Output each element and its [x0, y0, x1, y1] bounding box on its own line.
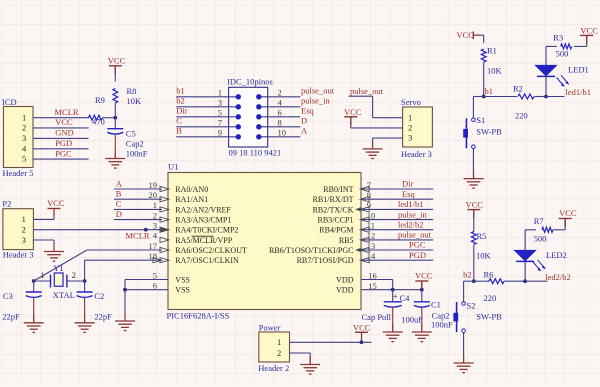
- svg-text:A: A: [301, 126, 308, 136]
- svg-text:11: 11: [367, 221, 375, 231]
- wire net A to RA0: [114, 188, 162, 190]
- U1 left pin names: [175, 185, 247, 295]
- junction VDD C1: [420, 288, 424, 292]
- connector ICD pin numbers: [22, 112, 27, 163]
- junction on RA4 wire: [144, 228, 148, 232]
- svg-text:5: 5: [153, 270, 157, 280]
- svg-text:1: 1: [22, 112, 26, 122]
- svg-text:100uF: 100uF: [401, 314, 423, 324]
- wire R3 to VCC: [574, 45, 587, 47]
- svg-text:Header 5: Header 5: [3, 168, 34, 178]
- wire RB4 to net led2/b2: [361, 229, 433, 231]
- capacitor C1: [414, 301, 430, 303]
- svg-text:pulse_out: pulse_out: [398, 230, 432, 240]
- svg-text:SW-PB: SW-PB: [476, 126, 502, 136]
- svg-text:GND: GND: [55, 128, 73, 138]
- svg-text:led1/b1: led1/b1: [398, 199, 424, 209]
- junction Power VCC: [360, 340, 364, 344]
- ground below C2: [84, 315, 86, 323]
- wire VCC to R8: [114, 66, 116, 82]
- svg-text:220: 220: [515, 110, 528, 120]
- IDC contact dots: [236, 94, 241, 99]
- wire net C to RA2: [114, 208, 162, 210]
- svg-text:C: C: [176, 116, 182, 126]
- wire net D to RA3: [114, 219, 162, 221]
- svg-text:VCC: VCC: [580, 26, 598, 36]
- svg-text:100nF: 100nF: [431, 320, 453, 330]
- svg-text:PIC16F628A-I/SS: PIC16F628A-I/SS: [167, 311, 230, 321]
- svg-text:1: 1: [277, 337, 281, 347]
- wire RA6 horizontal: [87, 249, 162, 251]
- svg-text:VDD: VDD: [336, 286, 354, 295]
- svg-text:2: 2: [72, 270, 76, 280]
- svg-text:2: 2: [153, 210, 157, 220]
- wire junction to C5: [114, 118, 116, 129]
- U1 right pin numbers: [367, 180, 377, 291]
- wire P2 pin3 to ground: [33, 239, 54, 241]
- svg-text:RB1/RX/DT: RB1/RX/DT: [313, 195, 354, 204]
- wire RB5 to net pulse_out: [361, 239, 433, 241]
- svg-text:R9: R9: [95, 95, 105, 105]
- svg-text:2: 2: [277, 348, 281, 358]
- svg-text:C1: C1: [431, 300, 441, 310]
- wire S2 to ground: [463, 333, 465, 364]
- svg-text:C3: C3: [3, 291, 13, 301]
- svg-text:2: 2: [22, 123, 26, 133]
- ground below C1: [421, 324, 423, 332]
- wire C4 to ground: [392, 307, 394, 332]
- wire R1 to node b1: [483, 62, 485, 96]
- svg-text:XTAL: XTAL: [53, 290, 75, 300]
- svg-text:9: 9: [367, 200, 371, 210]
- svg-text:R5: R5: [477, 231, 487, 241]
- wire C1 top: [421, 290, 423, 302]
- IDC left pin numbers 1 3 5 7 9: [218, 88, 222, 138]
- wire R5 to node b2: [473, 245, 475, 282]
- capacitor C3: [26, 291, 42, 293]
- node b2 junction: [472, 279, 476, 283]
- junction MCLR/R8/C5: [113, 116, 117, 120]
- wire b2 to S2: [464, 280, 474, 282]
- svg-text:1: 1: [153, 200, 157, 210]
- svg-text:9: 9: [218, 128, 222, 138]
- svg-text:RA7/OSC1/CLKIN: RA7/OSC1/CLKIN: [175, 256, 239, 265]
- svg-text:+: +: [393, 292, 398, 301]
- wire RB3 to net pulse_in: [361, 219, 433, 221]
- wire vertical crystal pin2 to RA7: [84, 260, 86, 281]
- svg-text:13: 13: [367, 241, 376, 251]
- svg-text:b2: b2: [463, 269, 472, 279]
- svg-text:A: A: [116, 178, 123, 188]
- svg-text:10K: 10K: [476, 251, 492, 261]
- wire Power pin1 to VCC: [290, 341, 372, 343]
- svg-text:P2: P2: [2, 198, 11, 208]
- resistor R6: [489, 279, 504, 284]
- svg-text:RA3/AN3/CMP1: RA3/AN3/CMP1: [175, 216, 231, 225]
- U1 RB2 filled arrow: [355, 207, 362, 212]
- svg-text:7: 7: [218, 118, 222, 128]
- svg-text:Dir: Dir: [402, 179, 414, 189]
- svg-text:VCC: VCC: [47, 198, 65, 208]
- svg-text:12: 12: [367, 231, 376, 241]
- wire crystal pin1 to C3: [33, 281, 35, 292]
- wire VCC to R5: [473, 210, 475, 232]
- svg-text:C: C: [116, 199, 122, 209]
- IDC right pin numbers 2 4 6 8 10: [278, 88, 287, 138]
- junction LED2 cathode node: [523, 279, 527, 283]
- wire LED1 to R3: [546, 45, 557, 47]
- svg-text:Servo: Servo: [401, 97, 421, 107]
- ground below C4: [392, 324, 394, 332]
- ground below Servo: [372, 141, 374, 149]
- svg-text:MCLR: MCLR: [55, 107, 79, 117]
- wire C3 to ground: [33, 298, 35, 323]
- svg-text:1: 1: [218, 88, 222, 98]
- svg-text:RA1/AN1: RA1/AN1: [175, 195, 208, 204]
- junction crystal pin1: [32, 279, 36, 283]
- diode LED2: [514, 250, 536, 260]
- wire R7 to VCC: [553, 229, 565, 231]
- wire P2 pin2 to RA4: [33, 229, 161, 231]
- resistor R9: [89, 115, 103, 120]
- svg-text:500: 500: [556, 48, 569, 58]
- wire VSS pin6: [125, 289, 168, 291]
- svg-text:R8: R8: [127, 86, 137, 96]
- capacitor C2: [77, 291, 93, 293]
- svg-text:20: 20: [149, 190, 158, 200]
- wire b1 to S1: [473, 96, 483, 98]
- wire ICD pin3 GND: [33, 137, 89, 139]
- wire C5 to ground: [114, 135, 116, 159]
- svg-text:D: D: [116, 209, 122, 219]
- svg-text:5: 5: [218, 108, 222, 118]
- LED2 wire vertical: [524, 230, 526, 281]
- svg-text:PGD: PGD: [409, 250, 426, 260]
- wire ICD pin1 MCLR: [33, 117, 89, 119]
- svg-text:1: 1: [22, 214, 26, 224]
- svg-text:8: 8: [278, 118, 282, 128]
- wire RB0 to net Dir: [361, 188, 433, 190]
- svg-text:3: 3: [22, 235, 26, 245]
- wire VDD junction to C4: [392, 290, 394, 302]
- switch S1 SW-PB: [472, 118, 476, 122]
- svg-text:3: 3: [22, 133, 26, 143]
- Power pin numbers: [277, 337, 281, 358]
- wire LED2 node to led2/b2 label: [525, 280, 547, 282]
- svg-text:ICD: ICD: [2, 97, 17, 107]
- wire crystal pin2 to C2: [84, 281, 86, 292]
- capacitor C5: [107, 128, 123, 130]
- svg-text:18: 18: [149, 251, 158, 261]
- ground below C5: [114, 150, 116, 158]
- svg-text:S2: S2: [467, 300, 476, 310]
- wire net B to RA1: [114, 198, 162, 200]
- U1 RA4 filled arrow: [161, 227, 169, 232]
- wire R9 to junction: [103, 117, 116, 119]
- svg-text:3: 3: [218, 98, 222, 108]
- wire b1 to R2: [484, 96, 517, 98]
- svg-text:b1: b1: [176, 86, 185, 96]
- svg-text:22pF: 22pF: [94, 311, 112, 321]
- svg-text:U1: U1: [168, 162, 178, 172]
- U1 left pin numbers: [149, 180, 158, 291]
- svg-text:2: 2: [22, 225, 26, 235]
- U1 RA7 extra triangle: [153, 258, 162, 263]
- svg-text:R6: R6: [484, 270, 494, 280]
- ground below S2: [463, 355, 465, 363]
- wire VSS to ground: [124, 280, 126, 322]
- svg-text:RB7/T1OSI/PGD: RB7/T1OSI/PGD: [297, 256, 354, 265]
- svg-text:VDD: VDD: [336, 275, 354, 284]
- power stub overpaint fixes: [114, 66, 116, 74]
- svg-text:10: 10: [278, 128, 287, 138]
- wire b2 to R6: [474, 280, 489, 282]
- svg-text:S1: S1: [476, 115, 485, 125]
- svg-text:LED2: LED2: [546, 250, 567, 260]
- svg-text:VCC: VCC: [353, 323, 371, 333]
- svg-text:Header 2: Header 2: [258, 363, 289, 373]
- wire ICD pin5 PGC: [33, 158, 89, 160]
- svg-text:14: 14: [367, 251, 376, 261]
- diode LED1: [535, 65, 557, 76]
- wire S1 to ground: [472, 149, 474, 179]
- resistor R2: [518, 94, 534, 99]
- svg-text:Dir: Dir: [176, 106, 188, 116]
- svg-text:B: B: [116, 189, 122, 199]
- svg-text:Header 3: Header 3: [401, 149, 432, 159]
- wire VDD pin15: [361, 289, 422, 291]
- ground below C3: [33, 315, 35, 323]
- svg-text:LED1: LED1: [568, 64, 589, 74]
- svg-text:R3: R3: [553, 33, 563, 43]
- U1 RB6 filled arrow: [355, 248, 362, 253]
- svg-text:VSS: VSS: [175, 286, 190, 295]
- svg-text:Header 3: Header 3: [3, 250, 34, 260]
- wire VCC to VDD: [421, 281, 423, 290]
- ground below Power header: [309, 356, 311, 364]
- U1 RA5 MCLR overline: [192, 235, 214, 237]
- svg-text:VCC: VCC: [457, 30, 475, 40]
- svg-text:pulse_in: pulse_in: [301, 96, 331, 106]
- svg-text:3: 3: [408, 133, 412, 143]
- svg-text:6: 6: [278, 108, 282, 118]
- svg-text:RA0/AN0: RA0/AN0: [175, 185, 208, 194]
- capacitor C4 polarized: [384, 301, 402, 303]
- wire R8 to junction: [114, 103, 116, 118]
- svg-text:RB0/INT: RB0/INT: [323, 185, 353, 194]
- junction crystal pin2: [83, 279, 87, 283]
- wire VSS pin5: [125, 279, 168, 281]
- svg-text:3: 3: [153, 221, 157, 231]
- svg-text:RA6/OSC2/CLKOUT: RA6/OSC2/CLKOUT: [175, 246, 247, 255]
- wire pulse_out to Servo pin1: [349, 95, 373, 97]
- svg-text:10: 10: [367, 210, 376, 220]
- wire C2 to ground: [84, 298, 86, 323]
- wire LED1 node to led1/b1 label: [546, 96, 564, 98]
- wire diagonal crystal pin1 to RA6: [34, 250, 87, 281]
- wire RB7 to net PGD: [361, 259, 433, 261]
- U1 right pin triangles: [360, 186, 369, 191]
- wire RA7 horizontal: [85, 259, 162, 261]
- wire C1 to ground: [421, 307, 423, 332]
- svg-text:Cap Poll: Cap Poll: [362, 312, 392, 322]
- svg-text:7: 7: [367, 180, 371, 190]
- svg-text:2: 2: [408, 123, 412, 133]
- junction VDD C4: [391, 288, 395, 292]
- resistor R7: [542, 227, 553, 232]
- svg-text:10K: 10K: [127, 96, 143, 106]
- svg-text:Esq: Esq: [402, 189, 416, 199]
- resistor R8: [113, 89, 118, 104]
- wire RB2 to net led1/b1: [361, 208, 433, 210]
- svg-text:PGC: PGC: [409, 240, 426, 250]
- wire VCC to P2 pin1: [53, 209, 55, 220]
- svg-text:pulse_out: pulse_out: [350, 86, 384, 96]
- resistor R1: [481, 49, 486, 62]
- svg-text:led1/b1: led1/b1: [566, 87, 592, 97]
- svg-text:IDC_10pinos: IDC_10pinos: [227, 77, 273, 87]
- Servo pin numbers: [408, 112, 412, 142]
- resistor R5: [471, 232, 476, 245]
- wire R6 to LED2 node: [504, 280, 525, 282]
- U1 left pin triangles: [160, 186, 169, 191]
- svg-text:SW-PB: SW-PB: [476, 311, 502, 321]
- svg-text:2: 2: [278, 88, 282, 98]
- svg-text:b1: b1: [485, 86, 494, 96]
- svg-text:Cap2: Cap2: [126, 138, 144, 148]
- svg-text:b2: b2: [176, 96, 185, 106]
- ground below VSS: [124, 313, 126, 321]
- svg-text:220: 220: [484, 293, 497, 303]
- svg-text:1: 1: [41, 270, 45, 280]
- svg-text:VCC: VCC: [108, 55, 126, 65]
- svg-text:MCLR: MCLR: [126, 230, 150, 240]
- svg-text:RB2/TX/CK: RB2/TX/CK: [313, 205, 354, 214]
- svg-text:VCC: VCC: [55, 117, 73, 127]
- svg-text:6: 6: [153, 281, 157, 291]
- svg-text:19: 19: [149, 180, 158, 190]
- wire VCC to R1: [473, 34, 483, 36]
- svg-text:C5: C5: [126, 128, 136, 138]
- wire RB6 to net PGC: [361, 249, 433, 251]
- junction LED1 cathode node: [544, 95, 548, 99]
- svg-text:VCC: VCC: [344, 107, 362, 117]
- P2 pin numbers: [22, 214, 26, 245]
- svg-text:D: D: [301, 116, 307, 126]
- svg-text:pulse_in: pulse_in: [398, 209, 428, 219]
- wire R2 to LED1 node: [535, 96, 547, 98]
- svg-text:Esq: Esq: [301, 106, 315, 116]
- IDC left pin wires b1 b2 Dir C B: [176, 96, 238, 98]
- svg-text:R1: R1: [487, 45, 497, 55]
- node b1 junction: [482, 95, 486, 99]
- svg-text:C4: C4: [400, 293, 411, 303]
- svg-text:100nF: 100nF: [126, 149, 148, 159]
- svg-text:PGD: PGD: [55, 138, 72, 148]
- svg-text:10K: 10K: [487, 65, 503, 75]
- wire Servo pin3 to ground: [373, 137, 403, 139]
- svg-text:B: B: [176, 126, 182, 136]
- svg-text:VCC: VCC: [415, 271, 433, 281]
- svg-text:17: 17: [149, 241, 158, 251]
- svg-text:pulse_out: pulse_out: [301, 86, 335, 96]
- resistor R3: [561, 44, 572, 49]
- wire VCC to Servo pin2: [350, 117, 352, 128]
- svg-text:09 18 110 9421: 09 18 110 9421: [229, 148, 282, 158]
- wire LED2 to R7: [525, 229, 536, 231]
- svg-text:1: 1: [408, 112, 412, 122]
- svg-text:22pF: 22pF: [2, 311, 20, 321]
- IDC right pin wires: [259, 96, 301, 98]
- svg-text:Power: Power: [259, 322, 281, 332]
- svg-text:Y1: Y1: [53, 263, 63, 273]
- svg-text:led2/b2: led2/b2: [545, 272, 571, 282]
- wire Power pin2 to ground: [290, 352, 311, 354]
- svg-text:VSS: VSS: [175, 275, 190, 284]
- svg-text:8: 8: [367, 190, 371, 200]
- svg-text:RB6/T1OSO/T1CKI/PGC: RB6/T1OSO/T1CKI/PGC: [269, 246, 353, 255]
- svg-text:5: 5: [22, 154, 26, 164]
- svg-text:RA2/AN2/VREF: RA2/AN2/VREF: [175, 205, 231, 214]
- svg-text:RB5: RB5: [339, 236, 354, 245]
- junction VSS: [123, 288, 127, 292]
- U1 right pin names: [269, 185, 354, 295]
- svg-text:R2: R2: [513, 84, 523, 94]
- svg-text:RB4/PGM: RB4/PGM: [319, 226, 353, 235]
- LED1 wire vertical: [545, 46, 547, 96]
- svg-text:VCC: VCC: [466, 200, 484, 210]
- svg-text:R7: R7: [534, 216, 544, 226]
- ground below P2: [53, 243, 55, 251]
- svg-text:RB3/CCP1: RB3/CCP1: [317, 216, 353, 225]
- svg-text:VCC: VCC: [559, 208, 577, 218]
- switch S2 SW-PB: [462, 302, 466, 306]
- svg-text:500: 500: [534, 233, 547, 243]
- ground below S1: [473, 170, 475, 178]
- svg-text:C2: C2: [94, 291, 104, 301]
- wire VDD pin16: [361, 279, 393, 281]
- wire ICD pin4 PGD: [33, 148, 89, 150]
- svg-text:RA5/MCLR/VPP: RA5/MCLR/VPP: [175, 236, 232, 245]
- svg-text:RA4/T0CKI/CMP2: RA4/T0CKI/CMP2: [175, 226, 238, 235]
- svg-text:led2/b2: led2/b2: [398, 219, 424, 229]
- wire RB1 to net Esq: [361, 198, 433, 200]
- wire ICD pin2 VCC: [33, 127, 89, 129]
- svg-text:PGC: PGC: [55, 148, 72, 158]
